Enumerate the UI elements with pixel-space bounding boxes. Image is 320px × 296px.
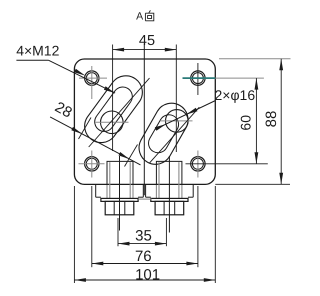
extension 101 right [214,186,216,283]
crosshair BR vertical [197,151,199,178]
hidden line between flanges (gray) [138,198,151,200]
arrow phi16 right (inward) [186,108,197,115]
arrow 35 left [118,242,130,246]
fitting right neck right side [192,184,194,197]
centerline fitting left [119,156,121,231]
centerline fitting right [168,156,170,233]
fitting right hex facet left [163,201,165,214]
fitting left hex facet right [124,201,126,214]
extension 35 left [117,218,119,246]
arrow 101 left [74,278,86,282]
hole M12 bottom-right inner circle [192,158,203,169]
hidden thread line (gray) [178,162,180,198]
arrow phi16 left (inward) [155,124,166,131]
dim line 45 [113,49,177,51]
plate outline [74,59,215,184]
fitting left neck right side [142,184,144,197]
svg-text:88: 88 [263,111,280,128]
hidden boss line below plate (gray) [181,185,183,198]
hidden thread line (gray) [158,162,160,198]
hole M12 bottom-left inner circle [86,158,97,169]
fitting right hex body [155,201,184,214]
fitting left flange [101,198,138,201]
hidden thread line (gray) [129,162,131,198]
crosshair TR vertical [197,63,199,95]
slot left bolt circle phi16 [101,111,124,134]
extension 60-dim top [215,77,264,79]
slot right bolt circle phi16 [166,110,189,133]
leader 4xM12 arrow at slot [104,86,115,93]
fitting right hex facet right [174,201,176,214]
fitting left hex body [105,201,134,214]
hidden boss line below plate (gray) [132,185,134,198]
centerline slot-right diagonal [149,107,199,163]
label Xiang glyph (CJK "direction") [145,10,153,20]
dim line 60 [255,78,257,164]
crosshair slot-right horizontal [160,120,193,122]
arrow 45 left [113,48,125,52]
hole M12 bottom-left outer circle [85,157,99,171]
fitting left neck bottom right step [138,196,143,198]
leader 4xM12 line [48,60,115,93]
arrow 88 top [279,59,283,71]
crosshair slot-left horizontal [96,121,129,123]
leader 4xM12 arrow at hole [74,69,85,76]
crosshair TL horizontal [79,77,107,79]
fitting left neck bottom left step [96,196,101,198]
leader 4xM12 underline [16,59,48,61]
slot right outer profile [139,103,188,164]
fitting right flange [151,198,188,201]
dim line 101 [74,279,215,281]
svg-text:4×M12: 4×M12 [16,43,59,59]
centerline slot-left vertical / 45-dim extension [112,45,114,152]
arrow 35 right [155,242,167,246]
leader 28 line [50,117,140,165]
boss left hidden outline [107,161,133,184]
crosshair TL vertical [91,66,93,99]
hidden boss line below plate (gray) [106,185,108,198]
arrow 88 bottom [279,173,283,185]
svg-text:101: 101 [135,267,160,284]
fitting left neck left side [95,184,97,197]
extension 101 left [73,186,75,283]
leader 28 arrow at slot edge 1 [71,127,82,134]
slot right inner profile [149,115,179,153]
arrow 60 top [255,78,259,90]
centerline slot-right vertical / 45-dim extension [175,45,177,153]
extension 35 right [165,218,167,246]
svg-text:60: 60 [238,115,254,131]
extension 28 upper [79,118,92,140]
hole M12 top-right inner circle [192,73,203,84]
crosshair BL horizontal [79,163,105,165]
highlighted centerline TR (teal) [183,77,216,79]
fitting right neck bottom left step [146,196,151,198]
arrow 101 right [204,278,216,282]
dim line 88 [280,59,282,185]
svg-text:2×φ16: 2×φ16 [215,87,256,103]
hole M12 top-left inner circle [86,73,97,84]
boss right hidden outline [156,161,182,184]
extension 88 top [219,58,291,60]
arrow 45 right [165,48,177,52]
svg-text:35: 35 [135,227,152,244]
centerline plate vertical [143,44,145,196]
fitting right neck left side [145,184,147,197]
crosshair BR horizontal / extension 60-dim bottom [186,163,268,165]
slot left outer profile [85,76,143,143]
arrow 76 right [186,262,198,266]
crosshair BL vertical [91,151,93,178]
arrow 76 left [92,262,104,266]
fitting right neck bottom right step [188,196,193,198]
extension 88 bottom [215,183,290,185]
centerline slot-left diagonal [89,78,150,147]
hole M12 top-left outer circle [85,71,99,85]
hole M12 bottom-right outer circle [191,157,205,171]
extension 76 right [197,186,199,267]
dim line phi16 [155,101,216,130]
fitting left hex facet left [113,201,115,214]
svg-text:76: 76 [135,248,152,265]
arrow 60 bottom [255,152,259,164]
dim line 76 [92,263,198,265]
hole M12 top-right outer circle [191,71,205,85]
leader 28 arrow at slot edge 2 [119,152,130,159]
svg-text:A: A [136,11,143,23]
hidden thread line (gray) [109,162,111,198]
svg-text:45: 45 [139,33,155,49]
extension 76 left [91,186,93,267]
extension 28 lower [125,145,138,167]
hidden boss line below plate (gray) [155,185,157,198]
slot left inner profile [95,87,133,131]
dim line 35 [118,243,166,245]
